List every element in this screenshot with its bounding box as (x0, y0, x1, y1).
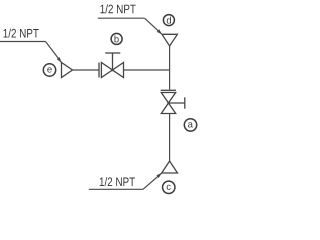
label text 1/2 NPT top-left (4, 29, 39, 38)
leader arrowhead c (156, 173, 161, 178)
port label 1/2 NPT top-left underline (0, 41, 46, 43)
balloon letter b (114, 35, 118, 42)
port triangle c (162, 161, 178, 173)
leader arrowhead d (157, 29, 162, 34)
valve a handle bar (184, 97, 186, 108)
balloon circle e (43, 64, 55, 76)
balloon circle b (111, 33, 122, 44)
pipe wire d down to valve a (169, 46, 171, 90)
valve b T-handle (105, 52, 120, 54)
valve a stem (169, 102, 185, 104)
balloon circle a (184, 119, 196, 131)
balloon letter d (167, 17, 171, 24)
balloon letter c (167, 185, 171, 190)
balloon letter e (47, 67, 51, 72)
leader wire to port d (145, 18, 162, 34)
balloon circle c (163, 181, 175, 193)
valve b flange bar (98, 63, 100, 78)
leader arrowhead e (57, 57, 62, 62)
port label 1/2 NPT bottom underline (89, 188, 143, 190)
valve a flange bar (161, 89, 176, 91)
valve a bowtie (161, 93, 175, 114)
port label 1/2 NPT top-right underline (98, 17, 145, 19)
valve b bowtie (101, 63, 123, 78)
valve b center dot (111, 69, 114, 72)
leader wire to port c (143, 173, 162, 189)
port triangle e (62, 63, 73, 78)
balloon letter a (188, 122, 193, 127)
label text 1/2 NPT top-right (101, 4, 136, 13)
label text 1/2 NPT bottom (100, 177, 135, 186)
pipe wire valve b to junction node (124, 69, 170, 71)
port triangle d (162, 34, 177, 46)
leader wire to port e (46, 42, 62, 63)
balloon circle d (163, 15, 174, 26)
valve a center dot (167, 102, 170, 105)
valve b stem (112, 53, 114, 70)
pipe wire valve a down to port c (169, 114, 171, 162)
pipe wire e to valve b (73, 69, 100, 71)
